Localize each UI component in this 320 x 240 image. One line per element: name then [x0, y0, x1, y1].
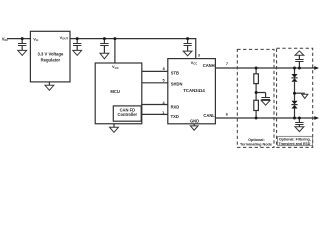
svg-text:Terminating Node: Terminating Node	[240, 142, 272, 146]
svg-text:TXD: TXD	[171, 114, 179, 119]
svg-text:8: 8	[163, 67, 165, 71]
svg-text:Controller: Controller	[118, 112, 138, 117]
svg-text:STB: STB	[171, 71, 179, 76]
svg-text:Vin: Vin	[33, 36, 38, 42]
svg-text:CANL: CANL	[203, 113, 215, 118]
svg-text:VIN: VIN	[2, 36, 8, 42]
svg-text:CANH: CANH	[203, 63, 215, 68]
svg-text:TCAN3414: TCAN3414	[183, 88, 205, 93]
svg-text:6: 6	[226, 113, 228, 117]
svg-text:VCC: VCC	[191, 60, 198, 66]
svg-text:VOUT: VOUT	[60, 35, 69, 41]
svg-text:MCU: MCU	[110, 89, 120, 94]
svg-text:Transient and ESD: Transient and ESD	[279, 142, 311, 146]
svg-text:SHDN: SHDN	[171, 82, 183, 87]
svg-text:GND: GND	[190, 118, 199, 123]
svg-text:Regulator: Regulator	[41, 57, 61, 62]
svg-text:1: 1	[162, 111, 164, 115]
svg-text:3: 3	[198, 53, 200, 57]
svg-text:VCC: VCC	[112, 64, 119, 70]
svg-text:RXD: RXD	[171, 105, 180, 110]
svg-text:3.3 V Voltage: 3.3 V Voltage	[38, 51, 64, 56]
svg-text:5: 5	[162, 78, 164, 82]
svg-text:7: 7	[226, 62, 228, 66]
